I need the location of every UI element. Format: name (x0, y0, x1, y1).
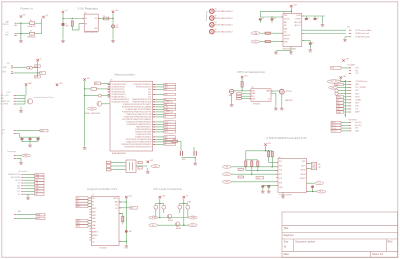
supply +5V (62, 11, 64, 13)
wire c12 gnd (262, 187, 264, 190)
pin U1 left 3 (108, 88, 110, 90)
wire rtc supply (241, 79, 243, 82)
wire jp4 vcc drop (340, 79, 342, 82)
svg-text:REV:: REV: (387, 240, 393, 243)
svg-text:OUT: OUT (94, 18, 97, 20)
rtc U3 (251, 89, 271, 101)
net label VD (35, 75, 41, 78)
wire jp4 (344, 96, 350, 98)
wire chg2 (16, 133, 19, 135)
wire mcu net (155, 113, 164, 115)
svg-text:SCL: SCL (284, 32, 287, 34)
svg-text:VC: VC (35, 66, 37, 68)
wire jp4 (341, 81, 349, 83)
wire mcu left vertical (84, 81, 86, 146)
pin BAT 1 (14, 214, 16, 216)
svg-text:10uF: 10uF (115, 27, 119, 29)
transistor Q4 (175, 222, 179, 226)
pin J1.2 (15, 33, 17, 35)
crystal Y1 (126, 160, 136, 173)
net label FUEL (22, 154, 31, 157)
wire jp4 (344, 105, 350, 107)
pin JP7.3 (21, 179, 23, 181)
net label MISO (164, 100, 173, 103)
svg-text:GND_H: GND_H (332, 131, 337, 133)
pin U1 right 22 (153, 136, 155, 138)
wire c13 gnd (268, 187, 270, 190)
net label VBAT (36, 213, 45, 216)
wire r1 bottom (71, 26, 73, 30)
wire snd busy (119, 207, 130, 209)
pin U3 VDD (249, 90, 251, 92)
svg-text:+3V3: +3V3 (150, 160, 154, 162)
pin FG 1 (14, 155, 16, 157)
pin U4 left (276, 166, 278, 168)
wire cap gnd (29, 142, 31, 144)
wire lipo (16, 103, 25, 105)
wire lipo (16, 97, 25, 99)
wire snd2 (88, 225, 91, 227)
pin U5 left (89, 217, 91, 219)
wire jp4 (344, 84, 350, 86)
ground (83, 147, 87, 149)
wire xtal 1 (111, 161, 126, 163)
svg-text:LIGHT-SENSE: LIGHT-SENSE (10, 177, 20, 179)
svg-text:RX_L: RX_L (319, 191, 323, 193)
pin JP4.3 (349, 87, 351, 89)
wire reg in (63, 18, 84, 20)
svg-text:Engineer:: Engineer: (284, 234, 295, 237)
svg-text:THERM_10K: THERM_10K (1, 101, 10, 103)
svg-text:768: 768 (318, 167, 321, 169)
wire snd (88, 197, 91, 199)
wire jp4 bus (344, 80, 346, 117)
wire snd vcc (119, 201, 126, 203)
svg-text:BUSY: BUSY (114, 198, 118, 200)
capacitor C17 (29, 139, 32, 140)
pin FG 2 (14, 157, 16, 159)
wire osc2 (307, 168, 312, 170)
led LED2 (193, 151, 195, 156)
pin U2 VDD (281, 16, 283, 18)
pin U5 right (119, 213, 121, 215)
wire U2 vcc rail (260, 10, 291, 12)
junction (241, 90, 242, 91)
svg-text:Document number:: Document number: (295, 240, 316, 243)
wire cap rail left (20, 136, 41, 138)
pin U4 right (307, 182, 309, 184)
svg-text:3V3: 3V3 (18, 183, 21, 185)
svg-text:PD3(PCINT19/OC2B/INT1): PD3(PCINT19/OC2B/INT1) (134, 84, 152, 86)
svg-text:INT: INT (337, 103, 339, 105)
pin U4 left (276, 173, 278, 175)
net label TX (76, 202, 88, 205)
net label SCL (251, 40, 260, 43)
wire led gnd drop (194, 157, 196, 161)
pin JP4.10 (349, 108, 351, 110)
net label SDA (337, 105, 344, 108)
svg-text:USB+: USB+ (92, 225, 96, 227)
mounting hole H1 (210, 9, 215, 14)
junction (112, 18, 113, 19)
pin JP6.1 (106, 161, 111, 164)
net label VC (164, 143, 176, 145)
svg-text:PD2(INT0/PCINT18): PD2(INT0/PCINT18) (112, 92, 126, 94)
pin JP4.4 (349, 90, 351, 92)
net label CHG (164, 126, 176, 128)
svg-text:X1: X1 (268, 98, 270, 100)
svg-text:IO2: IO2 (92, 242, 95, 244)
capacitor C3 (112, 25, 115, 28)
svg-text:D1: D1 (30, 31, 32, 33)
pin U1 left 5 (108, 93, 110, 95)
pin U5 left (89, 205, 91, 207)
svg-text:PC6(RESET/PCIN PB5(SCK/PCINT5: PC6(RESET/PCIN PB5(SCK/PCINT5) (127, 124, 152, 126)
pin LIPO 2 (14, 97, 16, 99)
svg-text:U5: U5 (92, 195, 94, 197)
net label CTS (256, 176, 264, 179)
resistor R14 (122, 216, 124, 222)
svg-text:F1: F1 (30, 20, 32, 22)
wire mcu net (155, 143, 164, 145)
led LED3 (311, 185, 314, 188)
svg-text:Fuel gauge: Fuel gauge (8, 151, 17, 153)
svg-text:DTR: DTR (91, 108, 94, 110)
net label SS (337, 99, 344, 102)
wire jp5 (341, 127, 349, 129)
svg-text:DTR: DTR (331, 68, 334, 70)
supply +3V3 (125, 196, 127, 198)
svg-text:REGOUT: REGOUT (284, 35, 291, 37)
wire mcu net (155, 131, 164, 133)
wire cap stub (37, 137, 39, 138)
junction (159, 217, 160, 218)
pin U5 left (89, 239, 91, 241)
svg-text:U1: U1 (110, 79, 112, 81)
wire lc right vert (183, 199, 185, 226)
pin LIPO 4 (14, 103, 16, 105)
pin JP3.2 (349, 70, 351, 72)
svg-text:VCC_3V3: VCC_3V3 (331, 81, 338, 83)
resistor R15 (238, 169, 243, 171)
wire c8 drop (314, 16, 316, 19)
wire led gnd rail (181, 156, 195, 158)
net label TXO (222, 173, 231, 176)
svg-text:+3V3: +3V3 (115, 10, 119, 12)
wire snd r (119, 213, 123, 215)
pin JP3.1 (349, 67, 351, 69)
svg-text:Size:: Size: (284, 240, 290, 243)
wire c6 bottom (271, 20, 273, 23)
wire reg out vertical (112, 13, 114, 39)
net label INT1 (164, 131, 176, 133)
svg-text:INT: INT (36, 194, 38, 196)
svg-text:SS: SS (337, 100, 339, 102)
supply VBAT (25, 83, 27, 85)
pin U1 right 14 (153, 116, 155, 118)
svg-text:SCL: SCL (17, 191, 20, 193)
svg-text:+3V3: +3V3 (267, 143, 271, 145)
supply +5V (42, 16, 44, 18)
svg-text:C1: C1 (65, 24, 67, 26)
pin JP4.7 (349, 99, 351, 101)
pin JP6.2 (106, 165, 111, 168)
svg-text:SCL: SCL (252, 96, 255, 98)
svg-text:GND: GND (77, 226, 80, 228)
net label SCK (335, 89, 338, 92)
wire fg1 (16, 155, 21, 157)
net label SCL (149, 224, 158, 227)
net label FUEL (164, 128, 176, 130)
svg-text:(TX/O)PD1(seq): (TX/O)PD1(seq) (355, 81, 367, 83)
sound ic U5 (91, 196, 119, 245)
wire gnd link (276, 50, 291, 52)
svg-text:CN1: CN1 (7, 63, 10, 65)
svg-text:C8: C8 (317, 18, 319, 20)
wire mcu net (155, 111, 164, 113)
wire xtal gnd (147, 168, 149, 170)
svg-text:3.3V Regulator: 3.3V Regulator (78, 6, 99, 10)
net label MISO (335, 92, 338, 95)
net label SDA5 (188, 216, 197, 219)
pin U1 right 20 (153, 131, 155, 133)
capacitor C8 (314, 19, 317, 20)
wire cap gnd rail (22, 141, 38, 143)
wire cap rail ftdi (263, 184, 278, 186)
svg-text:RTS: RTS (279, 174, 282, 176)
net label SCL (35, 190, 44, 193)
svg-text:BSS138: BSS138 (176, 228, 181, 230)
wire vbat drop (25, 86, 27, 96)
pin U5 left (89, 236, 91, 238)
wire sj 1 (241, 93, 251, 95)
wire jp5 (341, 124, 349, 126)
wire r7 out (178, 140, 182, 142)
ground (280, 107, 284, 109)
wire pullup rail (246, 150, 272, 152)
resistor R1 (71, 21, 73, 27)
svg-text:FUEL: FUEL (24, 155, 28, 157)
wire rtc gnd2 (271, 92, 276, 94)
wire mcu net (155, 93, 164, 95)
wire gnd drop (322, 16, 324, 23)
svg-text:H3: H3 (215, 22, 217, 24)
svg-text:MOSI: MOSI (337, 97, 341, 99)
svg-text:USB-: USB- (92, 228, 96, 230)
wire jp4 (338, 93, 349, 95)
pin JP5.2 (349, 124, 351, 126)
pin J1.2b (15, 34, 17, 36)
net label A4_H (331, 121, 341, 124)
coin cell BT2 (279, 89, 284, 94)
net label VIBR (35, 173, 44, 176)
svg-text:LD1117S33 SOT223: LD1117S33 SOT223 (84, 32, 98, 34)
wire i2c (24, 176, 35, 178)
net label DTR (222, 180, 231, 183)
wire u2 gnd (290, 47, 292, 51)
net label OSC (151, 165, 160, 168)
supply +3V3 (264, 143, 266, 145)
pin U4 left (276, 184, 278, 186)
ground (343, 38, 347, 40)
svg-text:CR1225: CR1225 (286, 91, 292, 93)
pin JP7.2 (21, 176, 23, 178)
net label SPK- (164, 86, 176, 88)
pin U1 right 24 (153, 141, 155, 143)
junction (272, 166, 273, 167)
wire vbat (271, 90, 279, 92)
wire GND row (17, 33, 30, 35)
svg-text:BAT: BAT (18, 210, 21, 213)
pin JP5.3 (349, 127, 351, 129)
net label BUSY (76, 205, 88, 208)
pin U5 left (89, 211, 91, 213)
supply +3V3 (342, 59, 344, 61)
diode pair D6 (186, 205, 190, 209)
wire mcu net (155, 108, 164, 110)
pin JP7.1 (21, 174, 23, 176)
wire jp4 (344, 99, 350, 101)
mounting hole H4 (210, 29, 215, 33)
wire cap stub (21, 137, 23, 138)
wire lc top2 (180, 202, 188, 204)
pin JP2.2 (349, 33, 351, 35)
junction (291, 11, 292, 12)
ground (321, 24, 325, 26)
pin U1 right 5 (153, 93, 155, 95)
wire snd (88, 203, 91, 205)
wire dtr ftdi (231, 181, 278, 183)
junction (268, 150, 269, 151)
net label RXI (222, 165, 231, 168)
svg-text:RESET_DEBOUNCE: RESET_DEBOUNCE (85, 113, 100, 115)
wire mcu net (155, 123, 164, 125)
wire osc1 (307, 163, 312, 165)
pin U1 right 8 (153, 101, 155, 103)
pin U4 left (276, 177, 278, 179)
svg-text:IO1: IO1 (92, 238, 95, 240)
svg-text:32k: 32k (318, 164, 321, 166)
svg-text:RST: RST (332, 87, 335, 89)
svg-text:ATMEGA328P-AU: ATMEGA328P-AU (112, 152, 127, 155)
svg-text:PD0(RXD/PCINT1 PB0(PCINT0/CLK: PD0(RXD/PCINT1 PB0(PCINT0/CLKO/ICP1) (122, 112, 151, 114)
pin CN1 2b (11, 73, 13, 75)
net label MISO (164, 110, 173, 113)
capacitor C1 (62, 23, 65, 26)
wire cn vertical (37, 62, 39, 77)
wire lipo (16, 95, 25, 97)
pin IC1 OUT (98, 18, 100, 20)
pin U5 right (119, 207, 121, 209)
wire cap stub2 (29, 140, 31, 142)
wire mcu net (155, 106, 164, 108)
wire rst (101, 82, 110, 84)
wire c9 drop (309, 41, 311, 44)
wire chg1 (16, 130, 40, 132)
wire sda2 (271, 32, 284, 34)
pin U5 left (89, 231, 91, 233)
net label SCL5 (188, 224, 197, 227)
wire cap rail (260, 16, 283, 18)
net label LED1 (164, 121, 176, 123)
resistor R4 (265, 41, 271, 43)
net label 3V3 (35, 182, 44, 185)
junction (84, 95, 85, 96)
svg-text:CTS: CTS (257, 177, 260, 179)
wire left pull (245, 151, 247, 161)
svg-text:3V3: 3V3 (355, 128, 358, 130)
wire snd2 (88, 219, 91, 221)
wire txo (231, 173, 278, 175)
pin JP4.6 (349, 96, 351, 98)
capacitor C12 (261, 186, 264, 187)
wire jp4 (344, 102, 350, 104)
junction (62, 18, 63, 19)
pin U1 right 10 (153, 106, 155, 108)
net label VCC capsule (327, 80, 341, 83)
wire jp4 (338, 90, 349, 92)
wire i2c (24, 190, 35, 192)
wire rxi (231, 166, 278, 168)
wire r12 bottom (251, 166, 253, 174)
wire cbus0 (307, 182, 315, 184)
junction (345, 81, 346, 82)
svg-text:U3: U3 (251, 87, 253, 89)
wire cap stub2 (37, 140, 39, 142)
svg-text:+3V3: +3V3 (128, 195, 132, 197)
svg-text:GND: GND (148, 89, 151, 91)
wire xtal 3 (111, 169, 126, 171)
ground (193, 162, 197, 164)
wire reg input vertical (62, 13, 64, 39)
svg-text:VC: VC (165, 144, 167, 146)
junction (37, 72, 38, 73)
resistor R10 (271, 151, 273, 157)
pin U3 X1 (271, 92, 273, 94)
pin U1 right 18 (153, 126, 155, 128)
pin U2 SDA (281, 32, 283, 34)
wire mcu net (155, 98, 164, 100)
svg-text:BUSY: BUSY (77, 206, 81, 208)
pin U5 left (89, 200, 91, 202)
wire mid ftdi (246, 170, 278, 172)
wire i2c (24, 185, 35, 187)
junction (72, 18, 73, 19)
pin U1 right 11 (153, 108, 155, 110)
ground (274, 107, 278, 109)
wire scl row (158, 224, 189, 226)
transistor Q1 (97, 101, 102, 106)
svg-text:PD4(PCINT20/XCK/T0): PD4(PCINT20/XCK/T0) (136, 87, 152, 89)
svg-text:PWR-IN: PWR-IN (3, 24, 10, 26)
svg-text:Amped Controller 3.3V: Amped Controller 3.3V (87, 187, 117, 191)
pin U3 SDA (249, 93, 251, 95)
capacitor C11 (138, 166, 142, 169)
title block frame (282, 212, 398, 257)
junction (126, 241, 127, 242)
resistor R3 (265, 32, 271, 34)
ground (146, 170, 150, 172)
junction (345, 114, 346, 115)
mounting hole H2 (210, 16, 215, 21)
svg-text:OSCO: OSCO (301, 165, 306, 167)
svg-text:OSC: OSC (154, 166, 157, 168)
pin U3 GND (249, 98, 251, 100)
mcu U1 (110, 81, 153, 151)
svg-text:LIPO: LIPO (7, 92, 12, 94)
imu U2 (283, 13, 302, 46)
junction (159, 203, 160, 204)
